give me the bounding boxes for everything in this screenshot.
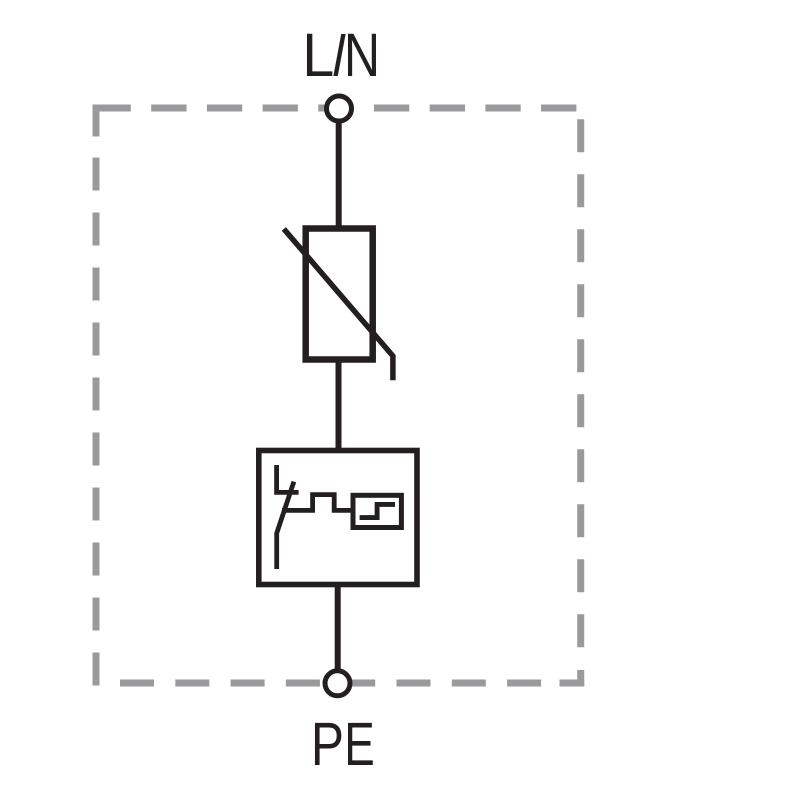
enclosure dashed border bottom-right corner horizontal arm [560, 680, 585, 687]
disconnector mechanical linkage step [282, 495, 353, 511]
surge waveform step symbol [360, 504, 395, 517]
enclosure dashed border top edge [96, 105, 582, 112]
disconnector switch blade [277, 482, 294, 569]
enclosure dashed border left edge [93, 158, 100, 687]
surge waveform indicator box [353, 495, 401, 527]
wire L/N terminal to varistor [336, 110, 342, 231]
label PE [311, 710, 375, 778]
enclosure dashed border right edge [577, 119, 584, 668]
terminal node PE [325, 671, 350, 696]
terminal node L/N [327, 96, 352, 121]
enclosure dashed border top-left corner vertical arm [93, 105, 100, 137]
svg-text:L: L [302, 21, 334, 89]
varistor diagonal stroke with bent tail [284, 229, 393, 380]
wire varistor to disconnector box [336, 357, 342, 453]
disconnector box outline U1 [259, 451, 417, 585]
svg-text:E: E [344, 710, 375, 778]
disconnector fixed contact L [277, 465, 299, 492]
varistor body rectangle [306, 229, 373, 360]
svg-text:N: N [344, 21, 380, 89]
svg-text:P: P [311, 710, 344, 778]
enclosure dashed border bottom edge [120, 680, 559, 687]
enclosure dashed border bottom-right corner vertical arm [577, 670, 584, 687]
wire disconnector box to PE terminal [335, 583, 341, 682]
label L/N [302, 21, 380, 89]
